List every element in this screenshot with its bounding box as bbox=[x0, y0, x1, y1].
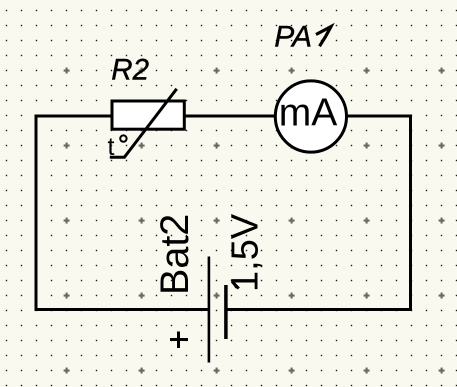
svg-text:PA: PA bbox=[274, 21, 312, 54]
svg-text:mA: mA bbox=[279, 91, 338, 134]
svg-text:1,5V: 1,5V bbox=[225, 213, 267, 292]
svg-text:t: t bbox=[108, 133, 115, 161]
svg-text:R2: R2 bbox=[111, 54, 149, 87]
svg-text:Bat2: Bat2 bbox=[153, 214, 197, 295]
